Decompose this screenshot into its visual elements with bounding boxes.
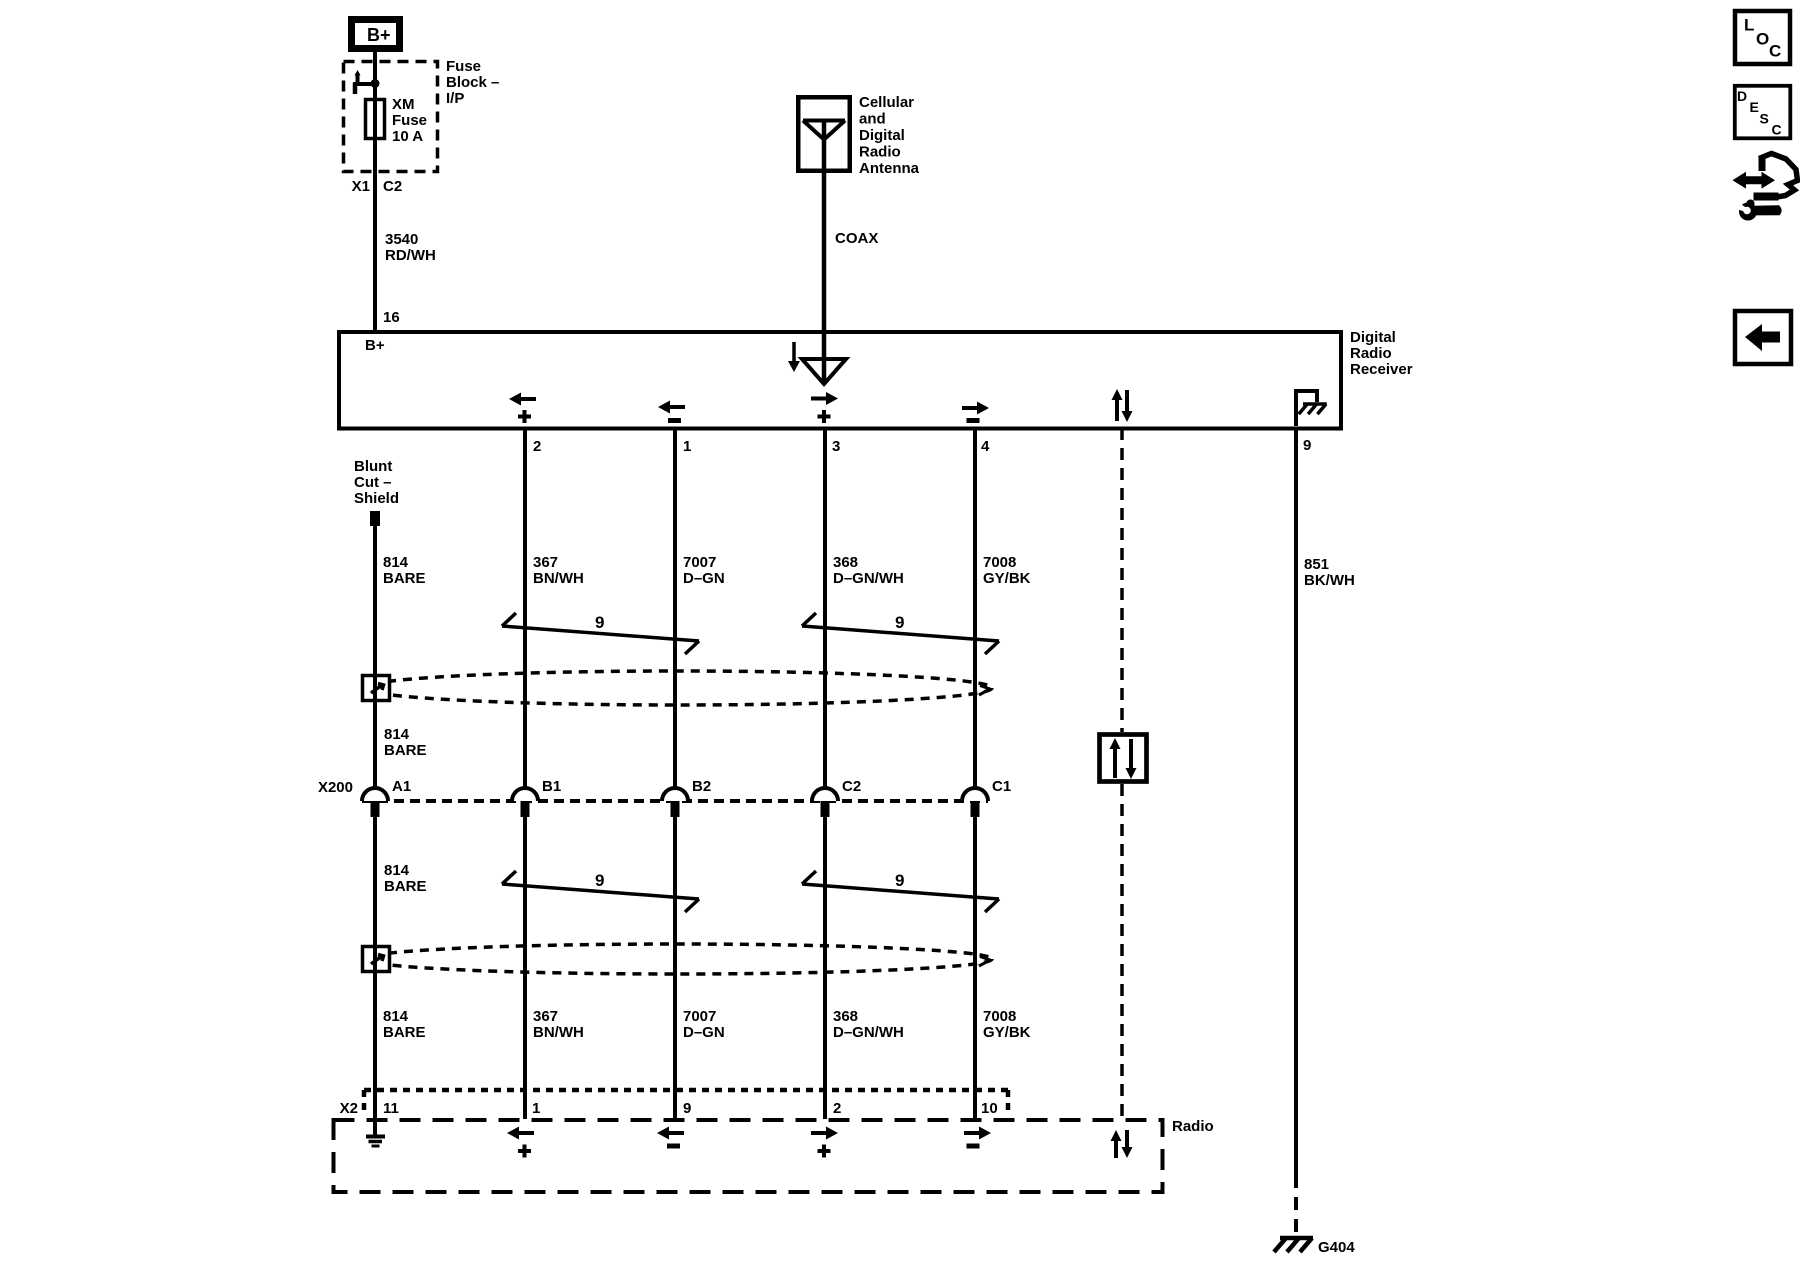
svg-text:367: 367	[533, 1008, 558, 1025]
svg-text:Antenna: Antenna	[859, 160, 920, 177]
svg-text:Radio: Radio	[1172, 1118, 1214, 1135]
svg-text:9: 9	[595, 871, 604, 890]
svg-text:Blunt: Blunt	[354, 458, 392, 475]
svg-text:7007: 7007	[683, 1008, 716, 1025]
svg-text:COAX: COAX	[835, 230, 878, 247]
svg-text:1: 1	[532, 1100, 540, 1117]
svg-text:X1: X1	[352, 178, 370, 195]
svg-text:7008: 7008	[983, 554, 1016, 571]
svg-text:B1: B1	[542, 778, 561, 795]
svg-text:2: 2	[833, 1100, 841, 1117]
svg-text:D–GN: D–GN	[683, 1024, 725, 1041]
svg-text:368: 368	[833, 554, 858, 571]
svg-text:S: S	[1760, 111, 1769, 127]
svg-text:Fuse: Fuse	[392, 112, 427, 129]
svg-text:9: 9	[895, 871, 904, 890]
svg-text:C1: C1	[992, 778, 1011, 795]
svg-text:Fuse: Fuse	[446, 58, 481, 75]
svg-text:BK/WH: BK/WH	[1304, 572, 1355, 589]
svg-text:A1: A1	[392, 778, 411, 795]
svg-text:C: C	[1769, 42, 1781, 61]
svg-text:Radio: Radio	[1350, 345, 1392, 362]
svg-text:C2: C2	[842, 778, 861, 795]
svg-text:814: 814	[383, 1008, 409, 1025]
svg-text:BARE: BARE	[383, 1024, 426, 1041]
svg-text:X2: X2	[340, 1100, 358, 1117]
svg-text:B2: B2	[692, 778, 711, 795]
svg-text:2: 2	[533, 438, 541, 455]
svg-text:10: 10	[981, 1100, 998, 1117]
svg-text:3: 3	[832, 438, 840, 455]
svg-text:D–GN/WH: D–GN/WH	[833, 1024, 904, 1041]
svg-text:BN/WH: BN/WH	[533, 1024, 584, 1041]
svg-text:BARE: BARE	[384, 878, 427, 895]
svg-text:Block –: Block –	[446, 74, 499, 91]
svg-text:814: 814	[383, 554, 409, 571]
svg-text:X200: X200	[318, 779, 353, 796]
svg-text:Digital: Digital	[859, 127, 905, 144]
svg-text:C2: C2	[383, 178, 402, 195]
svg-text:Cut –: Cut –	[354, 474, 392, 491]
svg-text:1: 1	[683, 438, 691, 455]
svg-text:XM: XM	[392, 96, 415, 113]
svg-text:I/P: I/P	[446, 90, 464, 107]
svg-text:BN/WH: BN/WH	[533, 570, 584, 587]
svg-text:BARE: BARE	[384, 742, 427, 759]
svg-text:E: E	[1750, 99, 1759, 115]
svg-text:368: 368	[833, 1008, 858, 1025]
svg-text:367: 367	[533, 554, 558, 571]
svg-text:7008: 7008	[983, 1008, 1016, 1025]
svg-text:9: 9	[1303, 437, 1311, 454]
svg-text:B+: B+	[367, 25, 391, 45]
svg-text:GY/BK: GY/BK	[983, 570, 1031, 587]
svg-text:16: 16	[383, 309, 400, 326]
svg-text:BARE: BARE	[383, 570, 426, 587]
svg-text:Radio: Radio	[859, 144, 901, 161]
svg-text:GY/BK: GY/BK	[983, 1024, 1031, 1041]
svg-text:814: 814	[384, 862, 410, 879]
svg-text:Cellular: Cellular	[859, 94, 914, 111]
svg-text:RD/WH: RD/WH	[385, 247, 436, 264]
svg-text:L: L	[1744, 16, 1754, 35]
svg-text:D–GN/WH: D–GN/WH	[833, 570, 904, 587]
svg-text:D–GN: D–GN	[683, 570, 725, 587]
svg-text:9: 9	[683, 1100, 691, 1117]
svg-text:O: O	[1756, 30, 1769, 49]
svg-text:851: 851	[1304, 556, 1329, 573]
svg-text:C: C	[1772, 122, 1782, 138]
svg-text:4: 4	[981, 438, 990, 455]
svg-text:7007: 7007	[683, 554, 716, 571]
svg-text:10 A: 10 A	[392, 128, 423, 145]
svg-text:9: 9	[595, 613, 604, 632]
svg-text:Shield: Shield	[354, 490, 399, 507]
svg-text:11: 11	[383, 1100, 399, 1117]
svg-text:G404: G404	[1318, 1239, 1355, 1256]
svg-text:and: and	[859, 111, 886, 128]
svg-text:Digital: Digital	[1350, 329, 1396, 346]
svg-text:814: 814	[384, 726, 410, 743]
svg-text:Receiver: Receiver	[1350, 361, 1413, 378]
svg-text:B+: B+	[365, 337, 385, 354]
svg-text:D: D	[1737, 88, 1747, 104]
svg-text:9: 9	[895, 613, 904, 632]
svg-text:3540: 3540	[385, 231, 418, 248]
